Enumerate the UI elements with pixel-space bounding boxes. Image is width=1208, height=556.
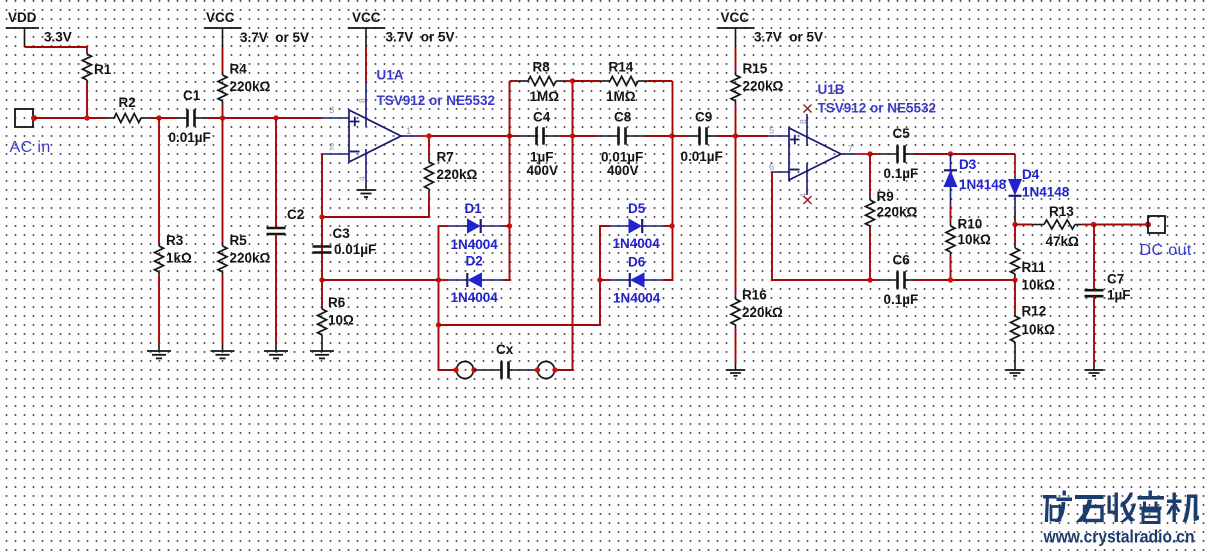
resistor R1 3.3V pullup: [83, 51, 112, 84]
svg-text:R11: R11: [1022, 260, 1047, 275]
wire C6 row to R11/R12 node: [948, 277, 1018, 282]
svg-text:C8: C8: [614, 110, 632, 125]
capacitor C1 0.01uF: [169, 88, 211, 145]
svg-text:D3: D3: [959, 157, 977, 172]
power symbol VCC (left): [205, 10, 310, 48]
svg-text:6: 6: [769, 162, 774, 173]
svg-text:220kΩ: 220kΩ: [743, 79, 784, 94]
svg-text:D2: D2: [466, 254, 483, 269]
capacitor C6 0.1uF: [867, 253, 950, 308]
watermark logo kuang: [1043, 491, 1072, 523]
resistor R11 10k: [1011, 225, 1056, 293]
capacitor C7 1uF to ground: [1085, 225, 1131, 371]
svg-text:220kΩ: 220kΩ: [437, 167, 478, 182]
svg-text:10kΩ: 10kΩ: [1022, 278, 1056, 293]
ground R16: [726, 364, 745, 376]
svg-text:C7: C7: [1107, 272, 1124, 287]
svg-text:TSV912 or NE5532: TSV912 or NE5532: [377, 93, 496, 108]
wire R15 to C9 node: [735, 105, 737, 136]
svg-text:R3: R3: [166, 233, 184, 248]
svg-text:VCC: VCC: [206, 10, 235, 25]
wire VCC to R15: [735, 48, 737, 72]
svg-text:4: 4: [357, 176, 367, 181]
svg-text:DC out: DC out: [1140, 242, 1192, 259]
svg-text:220kΩ: 220kΩ: [742, 305, 783, 320]
svg-text:C2: C2: [287, 207, 304, 222]
wire C1 to U1A noninverting input: [207, 115, 322, 120]
capacitor C5 0.1uF: [867, 126, 950, 181]
svg-text:10kΩ: 10kΩ: [958, 232, 992, 247]
resistor R15 220k: [731, 61, 784, 105]
svg-text:220kΩ: 220kΩ: [230, 79, 271, 94]
wire vertical bus x=509.5: [503, 81, 512, 280]
svg-text:R2: R2: [119, 95, 136, 110]
power symbol VCC (right): [718, 10, 824, 48]
svg-text:R1: R1: [94, 62, 112, 77]
wire U1B inverting loop: [772, 172, 870, 280]
capacitor C8 0.01uF 400V: [573, 110, 673, 179]
wire y=325 link: [439, 226, 610, 325]
svg-text:1MΩ: 1MΩ: [530, 89, 560, 104]
watermark logo shi: [1075, 495, 1104, 522]
ground C7: [1085, 370, 1104, 376]
svg-text:1N4004: 1N4004: [613, 291, 661, 306]
svg-text:3: 3: [329, 105, 334, 116]
resistor R13 47k: [1012, 204, 1093, 249]
resistor R3 1k to ground: [155, 118, 193, 344]
svg-text:8: 8: [798, 119, 808, 124]
resistor R14 1M: [573, 60, 673, 105]
resistor R4 220k: [218, 62, 271, 106]
diode D2 1N4004: [439, 254, 504, 306]
resistor R7 feedback 220k: [322, 136, 478, 217]
svg-text:3.7V or 5V: 3.7V or 5V: [754, 30, 823, 45]
ground R6: [310, 351, 334, 358]
svg-text:D5: D5: [628, 201, 646, 216]
svg-text:U1B: U1B: [818, 82, 845, 97]
diode D5 1N4004: [609, 201, 672, 251]
wire VCC to U1A pin8: [365, 48, 367, 82]
resistor R5 220k to ground: [218, 118, 271, 344]
svg-text:2: 2: [329, 142, 334, 153]
ground R3: [147, 344, 171, 358]
svg-text:D1: D1: [465, 201, 483, 216]
svg-text:VDD: VDD: [8, 10, 37, 25]
power symbol VCC (U1A): [348, 10, 455, 48]
svg-text:220kΩ: 220kΩ: [230, 251, 271, 266]
resistor R8 1M: [510, 60, 573, 105]
wire U1A output row: [426, 133, 512, 138]
svg-text:D6: D6: [628, 255, 646, 270]
watermark logo yin: [1138, 491, 1165, 523]
svg-text:0.01µF: 0.01µF: [334, 242, 376, 257]
capacitor Cx: [474, 342, 537, 379]
svg-text:www.crystalradio.cn: www.crystalradio.cn: [1043, 527, 1195, 547]
svg-text:AC in: AC in: [10, 139, 51, 156]
U1B pin numbers: [769, 119, 853, 198]
watermark logo shou: [1108, 493, 1137, 523]
capacitor C9 0.01uF: [672, 110, 736, 165]
U1A pin numbers: [329, 98, 411, 181]
wire VCC to R4: [222, 48, 224, 72]
svg-text:10kΩ: 10kΩ: [1022, 322, 1056, 337]
connector Cx left: [453, 362, 476, 379]
svg-text:1N4004: 1N4004: [451, 237, 499, 252]
svg-text:VCC: VCC: [352, 10, 381, 25]
svg-text:4: 4: [798, 193, 808, 198]
svg-text:TSV912 or NE5532: TSV912 or NE5532: [818, 101, 937, 116]
op-amp U1A: [322, 82, 429, 185]
wire D-bridge left vertical x=438.5: [436, 226, 456, 370]
ground U1A pin4: [357, 185, 376, 197]
svg-text:R13: R13: [1049, 204, 1074, 219]
svg-text:C1: C1: [183, 88, 201, 103]
svg-text:220kΩ: 220kΩ: [877, 205, 918, 220]
wire R13 to DC out: [1091, 222, 1151, 228]
U1B labels: [818, 82, 937, 116]
svg-text:1MΩ: 1MΩ: [606, 89, 636, 104]
ground R12: [1006, 370, 1025, 376]
wire vertical bus x=672.5: [664, 81, 675, 280]
terminal DC out: [1140, 216, 1192, 259]
svg-text:1N4148: 1N4148: [959, 177, 1007, 192]
svg-text:C5: C5: [893, 126, 911, 141]
svg-text:400V: 400V: [607, 163, 639, 178]
wire VDD to R1: [25, 47, 88, 51]
wire AC in to R2: [34, 115, 104, 120]
capacitor C3 0.01uF: [313, 226, 377, 257]
wire C3 node to D2: [322, 279, 439, 281]
wire C9 node junction: [733, 133, 768, 138]
watermark logo ji: [1167, 493, 1199, 523]
svg-text:3.7V or 5V: 3.7V or 5V: [386, 30, 455, 45]
svg-text:400V: 400V: [527, 163, 559, 178]
capacitor C4 1uF 400V: [510, 110, 573, 179]
svg-text:8: 8: [357, 98, 367, 103]
ground R5: [211, 344, 235, 358]
wire output row to D4: [948, 151, 1015, 156]
U1A labels: [377, 68, 496, 109]
svg-text:3.3V: 3.3V: [44, 30, 72, 45]
resistor R12 10k to ground: [1011, 280, 1056, 370]
svg-text:R12: R12: [1022, 304, 1047, 319]
svg-text:C3: C3: [333, 226, 351, 241]
U1B NC cross pin8: [804, 105, 812, 113]
wire vertical bus x=572.5 (to Cx): [555, 78, 575, 370]
svg-text:1: 1: [406, 126, 411, 137]
resistor R2: [104, 95, 151, 123]
wire R1 to node AC: [86, 84, 88, 118]
svg-text:R4: R4: [230, 62, 248, 77]
svg-text:R7: R7: [437, 150, 454, 165]
svg-text:R6: R6: [328, 295, 346, 310]
svg-text:D4: D4: [1022, 167, 1040, 182]
svg-text:C6: C6: [893, 253, 911, 268]
svg-text:R5: R5: [230, 233, 248, 248]
svg-text:R8: R8: [533, 60, 551, 75]
terminal AC in: [10, 109, 51, 156]
svg-text:0.1µF: 0.1µF: [884, 292, 919, 307]
svg-text:R16: R16: [742, 288, 767, 303]
svg-text:1µF: 1µF: [1107, 288, 1131, 303]
svg-text:C9: C9: [695, 110, 712, 125]
capacitor C2 to ground: [267, 118, 305, 344]
wire R2 to C1: [151, 115, 175, 120]
resistor R16 220k to ground: [731, 136, 783, 364]
svg-text:0.1µF: 0.1µF: [884, 166, 919, 181]
svg-text:7: 7: [848, 144, 853, 155]
svg-text:R14: R14: [609, 60, 634, 75]
svg-text:R10: R10: [958, 217, 983, 232]
diode D4 1N4148: [1009, 154, 1070, 225]
svg-text:47kΩ: 47kΩ: [1046, 234, 1080, 249]
svg-text:5: 5: [769, 126, 774, 137]
svg-text:0.01µF: 0.01µF: [169, 130, 211, 145]
connector Cx right: [535, 362, 558, 379]
U1B NC cross pin4: [804, 196, 812, 204]
svg-text:0.01µF: 0.01µF: [681, 149, 723, 164]
wire R4 to main node: [222, 105, 224, 118]
resistor R6 10ohm: [318, 280, 355, 351]
wire U1A inverting input loop: [319, 154, 324, 283]
svg-text:1N4148: 1N4148: [1022, 185, 1070, 200]
svg-text:R9: R9: [877, 189, 894, 204]
svg-text:10Ω: 10Ω: [328, 313, 354, 328]
diode D6 1N4004: [600, 255, 673, 306]
resistor R10 10k: [946, 217, 991, 281]
svg-text:U1A: U1A: [377, 68, 404, 83]
svg-text:1N4004: 1N4004: [613, 236, 661, 251]
resistor R9 220k: [866, 154, 918, 280]
svg-text:1N4004: 1N4004: [451, 290, 499, 305]
power symbol VDD: [6, 10, 72, 47]
svg-text:R15: R15: [743, 61, 768, 76]
diode D3 1N4148: [944, 154, 1007, 222]
op-amp U1B: [768, 114, 870, 195]
ground C2: [264, 344, 288, 358]
svg-text:VCC: VCC: [721, 10, 750, 25]
svg-text:3.7V or 5V: 3.7V or 5V: [240, 30, 309, 45]
svg-text:1kΩ: 1kΩ: [166, 251, 192, 266]
diode D1 1N4004: [439, 201, 510, 252]
svg-text:Cx: Cx: [496, 342, 514, 357]
svg-text:C4: C4: [533, 110, 551, 125]
